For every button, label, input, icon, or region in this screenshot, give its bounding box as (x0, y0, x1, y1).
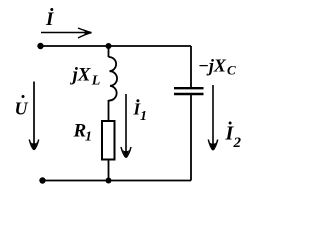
capacitor -jX_C plates (174, 88, 204, 94)
current arrow I1 (label İ_1) (121, 94, 147, 158)
wire top horizontal (40, 45, 191, 47)
svg-text:2: 2 (233, 135, 242, 151)
svg-text:−jX: −jX (198, 56, 227, 76)
svg-text:1: 1 (85, 130, 92, 145)
svg-text:1: 1 (140, 109, 147, 124)
label jX_L (70, 65, 101, 89)
node junction top (inductor branch) (106, 43, 112, 49)
wire capacitor branch lower (190, 94, 192, 181)
wire inductor branch top stub (108, 46, 110, 57)
node junction bottom (106, 178, 112, 184)
label -jX_C (198, 56, 236, 78)
wire bottom horizontal (43, 180, 192, 182)
svg-text:C: C (227, 63, 236, 78)
voltage arrow U (label U̇) (15, 82, 39, 151)
current arrow I2 (label İ_2) (208, 85, 241, 151)
node terminal top-left (37, 43, 43, 49)
wire between inductor and resistor (108, 100, 110, 121)
node terminal bottom-left (39, 177, 45, 183)
svg-text:U: U (15, 99, 29, 119)
wire capacitor branch upper (190, 46, 192, 87)
svg-text:jX: jX (70, 65, 92, 86)
label R_1 (73, 121, 93, 145)
inductor jX_L coil (109, 57, 118, 101)
resistor R1 box (102, 121, 115, 160)
current arrow I (label İ) (41, 8, 92, 38)
svg-text:I: I (45, 9, 54, 30)
wire resistor to bottom (108, 160, 110, 181)
svg-text:L: L (91, 74, 101, 89)
